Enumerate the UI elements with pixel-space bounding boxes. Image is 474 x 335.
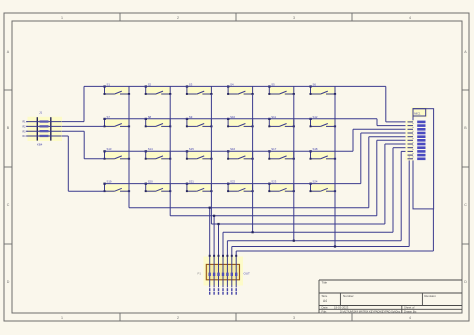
connector KB1 pin 11 xyxy=(406,157,426,160)
svg-text:1: 1 xyxy=(61,316,63,320)
svg-text:S8: S8 xyxy=(148,115,152,119)
connector KB1 pin 2 xyxy=(406,124,426,127)
junction P1 pin 1 on run xyxy=(209,207,211,209)
switch S13 xyxy=(103,147,130,160)
svg-text:C: C xyxy=(464,203,467,207)
switch S24 xyxy=(309,180,336,193)
connector KB1 pin 10 xyxy=(406,154,426,157)
wire: column 6 vertical xyxy=(334,94,336,247)
svg-text:S18: S18 xyxy=(313,147,318,151)
wire: column 5 rise to KB1 pin 9 xyxy=(401,151,407,240)
wire: column 3 horizontal run xyxy=(211,223,385,225)
switch S12 xyxy=(309,115,336,128)
border zone letters A-D left and right xyxy=(7,50,468,284)
connector P1 value xyxy=(244,272,251,276)
svg-text:S6: S6 xyxy=(313,82,317,86)
switch S1 xyxy=(103,82,130,95)
junction P1 pin 3 on run xyxy=(217,223,219,225)
switch S14 xyxy=(145,147,172,160)
svg-text:S11: S11 xyxy=(271,115,276,119)
switch S15 xyxy=(186,147,213,160)
switch S23 xyxy=(268,180,295,193)
svg-text:3: 3 xyxy=(293,16,295,20)
connector KB1 pin 4 xyxy=(406,131,426,134)
wire: column 1 vertical xyxy=(128,94,130,208)
wire: P1 pin 2 drop xyxy=(213,216,215,287)
svg-text:S3: S3 xyxy=(189,82,193,86)
connector P1 highlight xyxy=(204,257,244,286)
wire: row 3 bus xyxy=(105,150,354,152)
connector P1 body xyxy=(206,264,239,279)
svg-text:S4: S4 xyxy=(230,82,234,86)
connector KB1 pin 1 xyxy=(406,120,426,123)
svg-text:Size: Size xyxy=(322,294,328,298)
wire: net R2 feed from connector J1 pin2 xyxy=(26,125,104,127)
switch S21 xyxy=(186,180,213,193)
switch S8 xyxy=(145,115,172,128)
svg-text:S13: S13 xyxy=(107,147,112,151)
svg-text:S2: S2 xyxy=(148,82,152,86)
svg-text:S17: S17 xyxy=(271,147,276,151)
switch S19 xyxy=(103,180,130,193)
wire: R2 drop to KB1 pin 2 xyxy=(377,119,408,126)
wire: P1 pin 3 drop xyxy=(218,224,220,287)
connector J1 pin 2 xyxy=(22,125,61,128)
wire: column 4 rise to KB1 pin 8 xyxy=(393,148,408,233)
wire: P1 pin 4 drop xyxy=(222,232,224,287)
wire: column 2 rise to KB1 pin 6 xyxy=(377,140,408,216)
connector KB1 pin 8 xyxy=(406,146,426,149)
switch S17 xyxy=(268,147,295,160)
wire: column 6 horizontal run xyxy=(232,246,409,248)
wire: R4 rise to KB1 pin 4 xyxy=(361,133,408,184)
svg-text:2: 2 xyxy=(177,16,179,20)
svg-text:S5: S5 xyxy=(271,82,275,86)
switch S22 xyxy=(227,180,254,193)
svg-text:S15: S15 xyxy=(189,147,194,151)
switch S20 xyxy=(145,180,172,193)
junction P1 pin 2 on run xyxy=(213,215,215,217)
svg-text:S12: S12 xyxy=(313,115,318,119)
svg-text:Revision: Revision xyxy=(424,294,436,298)
connector P1 designator xyxy=(197,272,201,276)
junction column 5 on run xyxy=(293,240,295,242)
svg-text:OUT: OUT xyxy=(244,272,251,276)
connector KB1 pin 7 xyxy=(406,142,426,145)
switch S9 xyxy=(186,115,213,128)
connector KB1 pin 3 xyxy=(406,128,426,131)
wire: net R1 feed from connector J1 pin1 xyxy=(26,86,84,121)
switch S6 xyxy=(309,82,336,95)
svg-text:File:: File: xyxy=(322,309,328,313)
wire: P1 pin 7 drop xyxy=(235,251,237,287)
svg-text:MIC1: MIC1 xyxy=(414,111,421,115)
wire: row 1 bus xyxy=(84,85,386,87)
connector J1 value xyxy=(37,143,43,147)
connector KB1 body xyxy=(411,107,433,209)
svg-text:S23: S23 xyxy=(271,180,276,184)
svg-text:S9: S9 xyxy=(189,115,193,119)
svg-text:S14: S14 xyxy=(148,147,153,151)
svg-text:KB4: KB4 xyxy=(37,143,43,147)
switch S3 xyxy=(186,82,213,95)
wire: column 3 rise to KB1 pin 7 xyxy=(385,144,408,224)
wire: column 5 horizontal run xyxy=(227,240,401,242)
wire: column 2 horizontal run xyxy=(170,215,377,217)
svg-text:S16: S16 xyxy=(230,147,235,151)
svg-text:1: 1 xyxy=(61,16,63,20)
svg-text:S7: S7 xyxy=(107,115,111,119)
svg-text:4: 4 xyxy=(409,16,411,20)
wire: column 4 vertical xyxy=(252,94,254,232)
wire: column 2 vertical xyxy=(169,94,171,216)
svg-text:19-03-2023: 19-03-2023 xyxy=(334,306,349,310)
wire: row 2 bus xyxy=(105,118,378,120)
switch S16 xyxy=(227,147,254,160)
border zone numbers 1-4 top and bottom xyxy=(61,16,411,320)
svg-text:3: 3 xyxy=(293,316,295,320)
svg-text:D:\ALTIUM\3X4 MATRIX KEYPAD\KE: D:\ALTIUM\3X4 MATRIX KEYPAD\KEYPAD.SchDo… xyxy=(340,309,401,313)
connector J1 body xyxy=(28,117,63,141)
connector J1 pin 4 xyxy=(22,135,61,138)
connector J1 designator xyxy=(39,111,43,115)
connector P1 net labels below xyxy=(209,288,237,294)
svg-text:P1: P1 xyxy=(197,272,201,276)
svg-text:S10: S10 xyxy=(230,115,235,119)
svg-text:S21: S21 xyxy=(189,180,194,184)
svg-text:A4: A4 xyxy=(323,299,327,303)
wire: P1 pin 6 drop xyxy=(231,247,233,288)
connector KB1 pin 9 xyxy=(406,150,426,153)
wire: net R4 feed from connector J1 pin4 xyxy=(26,136,104,191)
wire: column 3 vertical xyxy=(210,94,212,224)
connector P1 pin numbers xyxy=(209,273,238,276)
svg-text:S22: S22 xyxy=(230,180,235,184)
svg-text:S1: S1 xyxy=(107,82,111,86)
wire: column 6 rise to KB1 pin 10 xyxy=(408,155,410,246)
svg-text:D: D xyxy=(464,280,467,284)
connector KB1 designator xyxy=(414,111,421,115)
svg-text:S24: S24 xyxy=(313,180,318,184)
wire: R1 drop to KB1 pin 1 xyxy=(386,86,408,122)
svg-text:J1: J1 xyxy=(39,111,43,115)
switch S4 xyxy=(227,82,254,95)
svg-text:Title: Title xyxy=(322,281,328,285)
svg-text:2: 2 xyxy=(177,316,179,320)
svg-text:4: 4 xyxy=(409,316,411,320)
title block texts xyxy=(322,281,437,314)
switch S7 xyxy=(103,115,130,128)
svg-text:C: C xyxy=(7,203,10,207)
title block frame xyxy=(319,280,462,313)
connector J1 pin 3 xyxy=(22,130,61,133)
switch S10 xyxy=(227,115,254,128)
wire: P1 pin 1 drop xyxy=(209,208,211,288)
wire: column 4 horizontal run xyxy=(223,231,393,233)
wire: P1 pin 5 drop xyxy=(226,241,228,288)
svg-text:Drawn By:: Drawn By: xyxy=(404,309,417,313)
switch S5 xyxy=(268,82,295,95)
connector KB1 pin 6 xyxy=(406,139,426,142)
connector KB1 pin 5 xyxy=(406,135,426,138)
wire: net R3 feed from connector J1 pin3 xyxy=(26,131,104,159)
wire: column 1 rise to KB1 pin 5 xyxy=(369,137,408,208)
wire: column 5 vertical xyxy=(293,94,295,241)
switch S11 xyxy=(268,115,295,128)
wire: net X7 from P1 pin 7 to KB1 pin 11 xyxy=(236,209,433,251)
svg-text:S19: S19 xyxy=(107,180,112,184)
switch S18 xyxy=(309,147,336,160)
svg-text:S20: S20 xyxy=(148,180,153,184)
connector J1 pin 1 xyxy=(22,120,61,123)
svg-text:Number: Number xyxy=(343,294,354,298)
junction column 6 on run xyxy=(334,245,336,247)
switch S2 xyxy=(145,82,172,95)
wire: column 1 horizontal run xyxy=(129,207,369,209)
svg-text:D: D xyxy=(7,280,10,284)
junction column 4 on run xyxy=(252,231,254,233)
wire: R3 rise to KB1 pin 3 xyxy=(353,129,408,151)
wire: row 4 bus xyxy=(105,183,361,185)
